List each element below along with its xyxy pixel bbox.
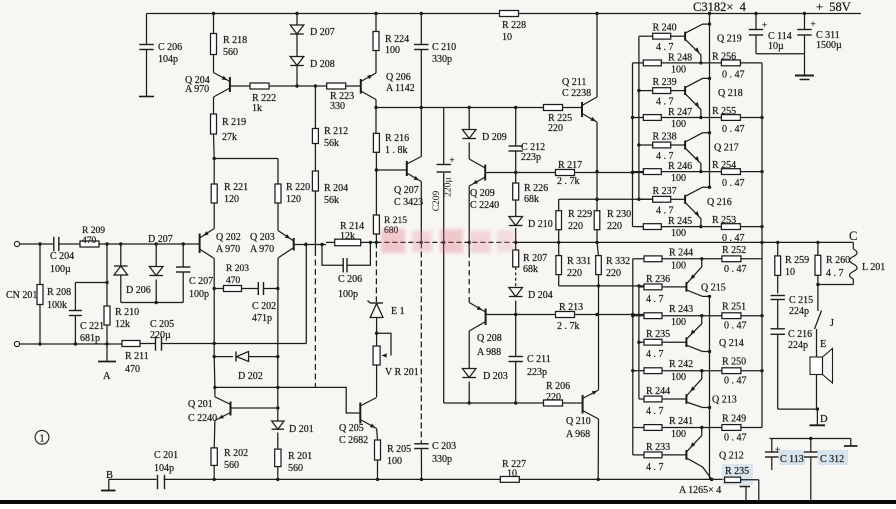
svg-text:C 206: C 206 <box>338 274 362 285</box>
resistor R219 <box>213 97 215 114</box>
svg-text:330p: 330p <box>432 54 452 65</box>
svg-text:10µ: 10µ <box>768 41 784 52</box>
svg-text:Q 210: Q 210 <box>566 416 591 427</box>
svg-text:R 228: R 228 <box>502 20 526 31</box>
svg-text:R 256: R 256 <box>712 51 736 62</box>
svg-text:R 331: R 331 <box>567 256 591 267</box>
svg-text:Q 211: Q 211 <box>562 77 586 88</box>
svg-text:1: 1 <box>40 433 45 444</box>
diode D206 right <box>155 244 157 267</box>
wire mirror link <box>215 386 316 388</box>
resistor R227 <box>500 477 519 483</box>
wire Q208 collector down <box>468 331 470 369</box>
transistor Q213 lower <box>685 394 687 404</box>
resistor R211 <box>122 341 140 347</box>
wire R222 to D208 node <box>269 85 297 87</box>
wire fb line mid <box>326 241 335 243</box>
svg-text:100: 100 <box>671 228 686 239</box>
wire bottom input <box>20 343 123 345</box>
svg-text:68k: 68k <box>523 264 538 275</box>
resistor R230 <box>594 211 600 230</box>
svg-text:56k: 56k <box>324 195 339 206</box>
ground B <box>108 479 110 490</box>
bus output 0.47 <box>761 63 763 428</box>
svg-text:E: E <box>820 339 826 350</box>
svg-text:R 235: R 235 <box>646 329 670 340</box>
svg-text:A 968: A 968 <box>566 429 590 440</box>
resistor R216 <box>375 108 377 134</box>
stub right <box>850 439 852 446</box>
transistor Q214 lower <box>685 337 687 347</box>
svg-text:R 215: R 215 <box>384 216 407 226</box>
svg-text:R 224: R 224 <box>385 34 409 45</box>
resistor R238 4.7 base <box>639 144 653 146</box>
diode D202 <box>214 356 233 358</box>
potentiometer VR201 <box>373 346 380 365</box>
svg-text:100: 100 <box>671 119 686 130</box>
svg-text:330p: 330p <box>432 454 452 465</box>
resistor R331 <box>558 242 560 255</box>
wire R225 to Q211 base <box>562 107 582 109</box>
wire +58V top rail left of R228 <box>147 13 500 15</box>
svg-text:560: 560 <box>288 463 303 474</box>
resistor R215 <box>373 215 379 234</box>
capacitor C206b <box>322 245 343 266</box>
svg-text:0 . 47: 0 . 47 <box>724 376 747 387</box>
node rail-R224 <box>374 12 377 15</box>
svg-text:1 . 8k: 1 . 8k <box>385 145 408 156</box>
bus lower collectors <box>709 296 711 479</box>
node rail-R218 <box>212 12 215 15</box>
svg-text:R 247: R 247 <box>668 107 692 118</box>
capacitor C311 <box>804 14 806 30</box>
svg-text:C 2240: C 2240 <box>188 413 217 424</box>
svg-text:560: 560 <box>223 47 238 58</box>
resistor R244 100 lower <box>633 258 644 260</box>
watermark red <box>381 229 514 253</box>
svg-text:D 203: D 203 <box>483 371 508 382</box>
resistor R208 <box>39 244 41 284</box>
svg-text:C 207: C 207 <box>189 276 213 287</box>
resistor R253 0.47 <box>721 224 740 230</box>
resistor R236 4.7 lower <box>639 286 644 288</box>
svg-text:100: 100 <box>385 45 400 56</box>
wire node to R223 <box>297 85 327 87</box>
resistor R214 <box>335 239 361 246</box>
wire Q203col lower <box>277 357 279 404</box>
capacitor C312 <box>810 439 812 453</box>
resistor R256 0.47 <box>721 60 740 66</box>
node fb riser top <box>305 244 308 246</box>
svg-text:C 203: C 203 <box>432 441 456 452</box>
wire speaker return <box>778 408 818 410</box>
svg-text:R 246: R 246 <box>668 161 692 172</box>
svg-text:220µ: 220µ <box>150 330 171 341</box>
resistor R224 <box>375 14 377 32</box>
wire Q207 emitter down <box>420 182 422 243</box>
speaker <box>816 329 818 357</box>
resistor R260 <box>817 242 819 255</box>
resistor R207 <box>515 242 517 250</box>
wire rail end <box>741 479 759 481</box>
resistor R237 4.7 base <box>639 198 653 200</box>
svg-text:R 217: R 217 <box>558 160 582 171</box>
svg-text:223p: 223p <box>521 152 541 163</box>
svg-text:D 210: D 210 <box>528 219 553 230</box>
wire Q211 collector <box>596 14 598 98</box>
node D208-R222 <box>295 84 298 87</box>
diode D206 left <box>120 244 122 266</box>
svg-text:C: C <box>849 229 857 243</box>
svg-text:120: 120 <box>224 194 239 205</box>
svg-text:220: 220 <box>607 221 622 232</box>
svg-text:Q 218: Q 218 <box>718 88 743 99</box>
wire +58V top rail right of R228 <box>519 13 861 15</box>
svg-text:A 970: A 970 <box>216 244 240 255</box>
diode D203 <box>462 369 476 378</box>
svg-text:4 . 7: 4 . 7 <box>656 205 674 216</box>
resistor R240 4.7 base <box>639 35 653 37</box>
resistor R245 100 <box>633 226 644 228</box>
bus upper 4.7 ohm <box>638 36 640 199</box>
svg-text:Q 216: Q 216 <box>707 197 732 208</box>
transistor Q219 <box>684 32 686 41</box>
svg-text:1500µ: 1500µ <box>816 40 842 51</box>
resistor R203 <box>214 288 223 290</box>
transistor Q203 <box>293 238 295 251</box>
svg-text:681p: 681p <box>80 333 100 344</box>
svg-text:D 202: D 202 <box>238 371 263 382</box>
wire D201 to R201 <box>277 433 279 450</box>
svg-text:Q 209: Q 209 <box>470 188 495 199</box>
svg-text:R 244: R 244 <box>669 247 693 258</box>
wire D209 to Q209 collector <box>468 143 470 160</box>
wire bottom rail left <box>109 478 156 480</box>
transistor Q217 <box>684 141 686 150</box>
capacitor C210 <box>420 14 422 45</box>
svg-text:C3182× 4: C3182× 4 <box>693 0 747 14</box>
capacitor C216 <box>771 328 785 330</box>
svg-text:J: J <box>830 318 834 329</box>
transistor Q215 lower <box>685 282 687 292</box>
svg-text:Q 201: Q 201 <box>188 399 213 410</box>
resistor R213 <box>516 314 556 316</box>
svg-text:R 216: R 216 <box>385 133 409 144</box>
transistor Q202 <box>199 234 201 254</box>
svg-text:V R 201: V R 201 <box>385 367 419 378</box>
input terminal top <box>14 241 19 246</box>
resistor R241 100 lower <box>633 427 644 429</box>
wire fb riser <box>305 242 307 343</box>
svg-text:CN 201: CN 201 <box>6 290 37 301</box>
svg-text:C 202: C 202 <box>252 301 276 312</box>
svg-text:Q 212: Q 212 <box>719 451 744 462</box>
svg-text:4 . 7: 4 . 7 <box>646 294 664 305</box>
resistor R235 bottom <box>722 464 753 485</box>
wire Q201 emitter down <box>213 421 216 449</box>
svg-text:100: 100 <box>671 64 686 75</box>
capacitor C204 <box>53 237 55 251</box>
svg-text:D 207: D 207 <box>148 234 173 245</box>
resistor R259 <box>777 242 779 256</box>
capacitor C221 <box>74 316 76 345</box>
wire Q202 collector down <box>213 259 215 357</box>
capacitor C202 <box>242 288 259 290</box>
svg-text:C 312: C 312 <box>820 454 844 465</box>
svg-text:R 211: R 211 <box>125 351 149 362</box>
resistor R212 <box>314 86 316 129</box>
svg-text:E 1: E 1 <box>391 306 405 317</box>
resistor R239 4.7 base <box>639 90 653 92</box>
svg-text:0 . 47: 0 . 47 <box>722 233 745 244</box>
node rail-Q211 <box>595 12 598 15</box>
svg-text:R 213: R 213 <box>559 302 583 313</box>
svg-text:4 . 7: 4 . 7 <box>646 462 664 473</box>
capacitor C201 <box>156 478 157 480</box>
svg-text:4 . 7: 4 . 7 <box>656 97 674 108</box>
svg-text:R 250: R 250 <box>722 357 746 368</box>
wire D203 down <box>468 382 470 404</box>
svg-text:D 204: D 204 <box>528 290 553 301</box>
svg-text:R 235: R 235 <box>725 466 749 477</box>
wire rail to D207 <box>296 14 298 26</box>
svg-text:Q 206: Q 206 <box>386 72 411 83</box>
bottom black strip <box>0 500 896 504</box>
svg-text:D 209: D 209 <box>482 132 507 143</box>
ground D <box>816 409 818 425</box>
resistor R235 4.7 lower <box>639 341 644 343</box>
svg-text:R 226: R 226 <box>524 183 548 194</box>
wire Q210 emitter up <box>598 286 600 390</box>
transistor Q204 <box>229 77 231 92</box>
svg-text:R 210: R 210 <box>115 307 139 318</box>
resistor R244 4.7 lower <box>639 398 644 400</box>
capacitor C211 <box>515 315 517 357</box>
resistor R201 <box>275 449 281 467</box>
svg-text:+: + <box>450 155 455 165</box>
wire Q210 collector down <box>597 419 599 479</box>
svg-text:C 113: C 113 <box>780 454 804 465</box>
resistor R225 <box>544 105 563 111</box>
svg-text:470: 470 <box>125 364 140 375</box>
svg-text:D: D <box>820 414 828 425</box>
svg-text:224p: 224p <box>788 340 808 351</box>
wire Q209 emitter down <box>468 186 470 242</box>
resistor R209 <box>80 241 99 247</box>
svg-text:D 207: D 207 <box>310 27 335 38</box>
resistor R246 100 <box>633 171 644 173</box>
svg-text:C 205: C 205 <box>150 319 174 330</box>
capacitor C215 <box>771 295 785 297</box>
svg-text:R 252: R 252 <box>722 245 746 256</box>
ground main caps <box>804 54 806 75</box>
resistor R217 <box>556 170 575 176</box>
capacitor C209 electrolytic <box>443 173 445 242</box>
wire VAS node horizontal <box>376 107 544 109</box>
svg-text:10: 10 <box>507 469 517 480</box>
wire D208 to base wire <box>296 66 298 86</box>
wire Q203 collector down <box>277 258 279 357</box>
svg-text:223p: 223p <box>527 367 547 378</box>
svg-text:R 255: R 255 <box>712 106 736 117</box>
svg-text:R 254: R 254 <box>712 160 736 171</box>
wire output line solid <box>516 241 854 243</box>
svg-text:12k: 12k <box>340 231 355 242</box>
svg-text:Q 214: Q 214 <box>719 338 744 349</box>
node rail-C210 <box>420 12 423 15</box>
wire R213 to bank <box>575 314 644 316</box>
svg-text:220: 220 <box>606 268 621 279</box>
transistor Q212 lower <box>685 450 687 460</box>
svg-text:470: 470 <box>82 236 97 246</box>
svg-text:1k: 1k <box>252 103 262 114</box>
resistor R255 0.47 <box>721 115 740 121</box>
wire R206 to Q210 <box>563 402 583 404</box>
wire fb shunt <box>214 343 306 345</box>
svg-text:R 239: R 239 <box>653 77 677 88</box>
resistor R249 0.47 lower <box>722 425 741 431</box>
transistor Q210 <box>582 395 584 414</box>
wire R223 to Q206 base <box>346 85 361 87</box>
svg-text:R 249: R 249 <box>722 414 746 425</box>
transistor Q207 <box>406 161 408 176</box>
svg-text:R 204: R 204 <box>324 183 348 194</box>
svg-text:471p: 471p <box>252 313 272 324</box>
svg-text:R 260: R 260 <box>826 255 850 266</box>
inductor L201 <box>852 242 854 249</box>
svg-text:0 . 47: 0 . 47 <box>722 69 745 80</box>
svg-text:D 208: D 208 <box>310 59 335 70</box>
wire Q207 base <box>376 169 406 171</box>
transistor Q216 <box>684 195 686 204</box>
wire input <box>20 243 53 245</box>
capacitor C212 <box>515 108 517 147</box>
svg-text:R 251: R 251 <box>722 302 746 313</box>
wire driver base line <box>444 402 544 404</box>
resistor R204 <box>312 171 318 191</box>
svg-text:100p: 100p <box>189 289 209 300</box>
diode D208 <box>290 57 304 66</box>
transistor Q201 <box>230 402 232 416</box>
bus lower 4.7 ohm <box>638 286 640 399</box>
svg-text:R 212: R 212 <box>324 126 348 137</box>
wire Q205 base jog <box>315 387 360 413</box>
svg-text:A: A <box>103 371 111 382</box>
label circled 1 <box>35 430 49 444</box>
wire R209 to Q202 base <box>99 243 200 245</box>
resistor R254 0.47 <box>721 169 740 175</box>
svg-text:100µ: 100µ <box>50 264 71 275</box>
svg-text:100: 100 <box>671 260 686 271</box>
svg-text:220: 220 <box>567 268 582 279</box>
switch J <box>817 285 819 312</box>
svg-text:R 242: R 242 <box>669 359 693 370</box>
svg-text:R 332: R 332 <box>606 256 630 267</box>
svg-text:D 201: D 201 <box>289 424 314 435</box>
svg-text:100: 100 <box>671 372 686 383</box>
transistor Q205 <box>359 403 361 424</box>
svg-text:56k: 56k <box>324 138 339 149</box>
label C113 <box>779 450 805 465</box>
label C312 <box>818 450 848 465</box>
svg-text:10: 10 <box>502 32 512 43</box>
capacitor C114 <box>755 14 757 30</box>
transistor Q211 <box>581 102 583 117</box>
bus lower 100 ohm <box>632 259 634 455</box>
svg-text:R 220: R 220 <box>286 182 310 193</box>
resistor R221 <box>213 203 215 229</box>
svg-text:Q 208: Q 208 <box>477 333 502 344</box>
svg-text:C 2240: C 2240 <box>470 200 499 211</box>
svg-text:C 201: C 201 <box>154 450 178 461</box>
resistor R226 <box>515 173 517 184</box>
svg-text:220: 220 <box>546 392 561 403</box>
svg-text:R 259: R 259 <box>785 255 809 266</box>
wire Q203 base out <box>294 244 326 246</box>
diode D209 <box>462 130 476 139</box>
svg-text:R 206: R 206 <box>546 381 570 392</box>
bus upper collectors <box>709 14 711 188</box>
svg-text:220: 220 <box>568 221 583 232</box>
svg-text:R 203: R 203 <box>226 264 249 274</box>
svg-text:R 237: R 237 <box>653 186 677 197</box>
ground A <box>106 344 108 362</box>
wire Q209 base <box>485 172 555 174</box>
zener E1 <box>375 242 377 302</box>
wire tail join <box>214 158 278 160</box>
svg-text:Q 215: Q 215 <box>701 283 726 294</box>
resistor R247 100 <box>633 117 644 119</box>
svg-text:R 244: R 244 <box>646 386 670 397</box>
svg-text:C 206: C 206 <box>158 42 182 53</box>
svg-text:68k: 68k <box>524 194 539 205</box>
transistor Q218 <box>684 86 686 95</box>
wire E1 to VR201 <box>376 318 378 347</box>
svg-text:104p: 104p <box>158 54 178 65</box>
resistor R250 0.47 lower <box>722 368 741 374</box>
svg-text:R 202: R 202 <box>224 448 248 459</box>
node rail C311 <box>803 12 806 15</box>
svg-text:D 206: D 206 <box>126 285 151 296</box>
svg-text:Q 205: Q 205 <box>339 423 364 434</box>
node rail C114 <box>754 12 757 15</box>
diode D201 <box>277 404 279 422</box>
svg-text:224p: 224p <box>789 306 809 317</box>
svg-text:27k: 27k <box>222 132 237 143</box>
svg-text:R 230: R 230 <box>607 209 631 220</box>
wire C209 bottom <box>443 242 445 403</box>
capacitor C206 <box>146 14 148 45</box>
svg-text:10: 10 <box>785 267 795 278</box>
resistor R223 <box>327 83 346 89</box>
svg-text:R 201: R 201 <box>288 451 312 462</box>
svg-text:R 233: R 233 <box>646 442 670 453</box>
svg-text:A 1142: A 1142 <box>386 83 415 94</box>
wire D210 down <box>515 228 517 242</box>
resistor R202 <box>211 448 217 466</box>
svg-text:0 . 47: 0 . 47 <box>722 124 745 135</box>
wire Q204 base to R222 <box>230 85 250 87</box>
svg-text:330: 330 <box>330 101 345 112</box>
svg-text:R 241: R 241 <box>669 416 693 427</box>
wire cap commons <box>756 53 805 55</box>
capacitor C113 <box>771 439 773 453</box>
diode D204 <box>509 288 523 297</box>
resistor R228 <box>500 11 519 17</box>
svg-text:Q 213: Q 213 <box>712 395 737 406</box>
svg-text:R 238: R 238 <box>653 132 677 143</box>
wire R217 to bank <box>575 172 644 174</box>
